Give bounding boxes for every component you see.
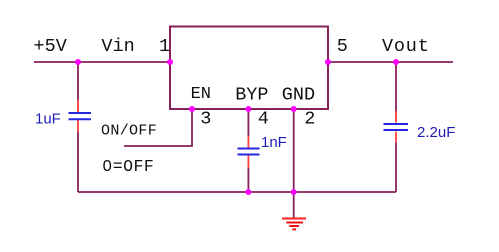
junction pin1 xyxy=(167,59,173,65)
ground xyxy=(282,219,306,230)
junction GND/ground rail xyxy=(291,189,297,195)
wire C1 top segment xyxy=(77,62,79,101)
junction C2/ground rail xyxy=(245,189,251,195)
svg-text:1uF: 1uF xyxy=(35,111,61,128)
svg-text:2.2uF: 2.2uF xyxy=(417,124,455,141)
svg-text:5: 5 xyxy=(337,36,348,57)
svg-text:ON/OFF: ON/OFF xyxy=(101,123,157,140)
wire Vout rail xyxy=(328,61,453,63)
capacitor C3 pins xyxy=(395,111,397,143)
svg-text:0=OFF: 0=OFF xyxy=(102,157,154,176)
svg-text:3: 3 xyxy=(200,109,211,130)
junction pin2 xyxy=(291,106,297,112)
junction pin4 xyxy=(245,106,251,112)
capacitor C3 plates xyxy=(384,124,409,130)
regulator U1 body xyxy=(170,27,328,110)
wire ground rail xyxy=(78,191,396,193)
capacitor C1 plates xyxy=(69,113,92,119)
junction Vout/C3 xyxy=(393,59,399,65)
wire C3 top segment xyxy=(395,62,397,112)
wire C1 bottom segment xyxy=(77,132,79,193)
svg-text:4: 4 xyxy=(258,109,269,130)
svg-text:Vin: Vin xyxy=(101,36,134,57)
junction +5V/C1 xyxy=(75,59,81,65)
junction pin3 xyxy=(189,106,195,112)
wire C3 bottom segment xyxy=(395,143,397,193)
wire C2 bottom segment xyxy=(247,168,249,193)
svg-text:EN: EN xyxy=(191,85,211,104)
capacitor C2 pins xyxy=(247,136,249,168)
wire +5V rail xyxy=(34,61,170,63)
junction pin5 xyxy=(325,59,331,65)
wire GND pin2 down xyxy=(293,109,295,218)
svg-text:Vout: Vout xyxy=(382,36,430,57)
svg-text:+5V: +5V xyxy=(34,36,67,57)
svg-text:1nF: 1nF xyxy=(261,134,287,151)
capacitor C1 pins xyxy=(77,101,79,132)
wire BYP pin4 to C2 xyxy=(247,109,249,137)
capacitor C2 plates xyxy=(238,149,260,155)
svg-text:BYP: BYP xyxy=(235,85,268,106)
svg-text:1: 1 xyxy=(159,36,170,57)
wire EN pin3 to ON/OFF xyxy=(124,109,192,146)
svg-text:2: 2 xyxy=(304,109,315,130)
svg-text:GND: GND xyxy=(282,85,315,106)
